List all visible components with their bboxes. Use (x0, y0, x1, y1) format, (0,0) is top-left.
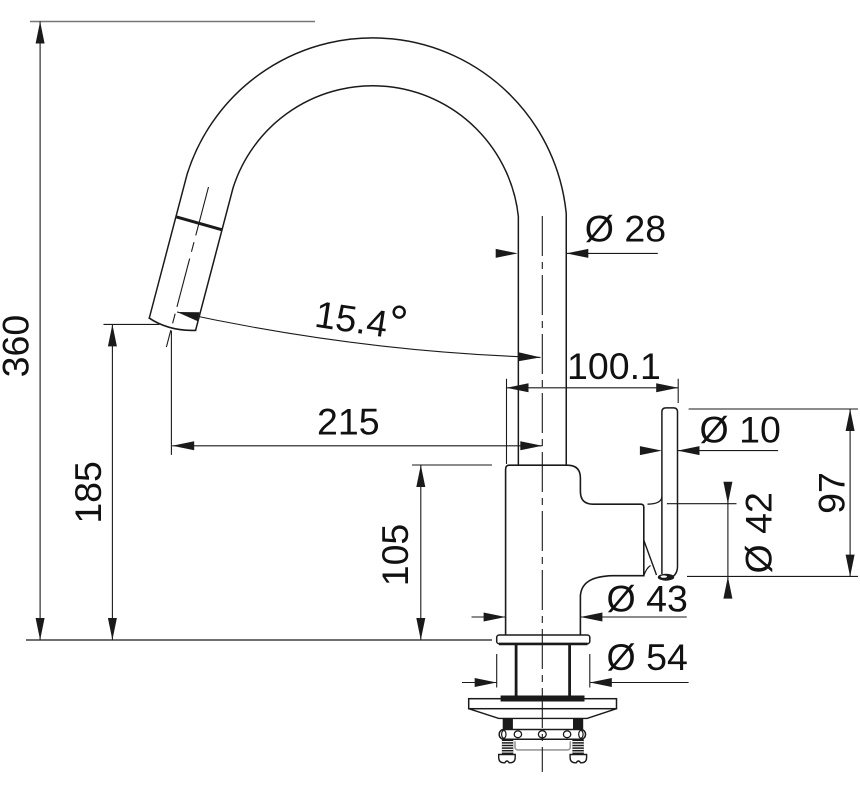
dim 215 line (172, 445, 542, 447)
arrow Ø54 left (475, 678, 497, 687)
extension 97 top (handle top) (689, 408, 858, 410)
wing nut right (570, 755, 587, 763)
dim Ø54 lines (462, 682, 497, 684)
arrow 360 bottom (36, 618, 45, 640)
handle linkage cusp (644, 566, 651, 576)
arrow Ø10 right (678, 446, 700, 455)
arrow 185 bottom (108, 618, 117, 640)
dim 360 line (39, 22, 41, 641)
arrow 185 top (108, 324, 117, 346)
extension 215 (from head tip) (170, 331, 172, 455)
arrow Ø43 left (484, 613, 506, 622)
stud upper right (black) (573, 718, 583, 729)
dim 97 line (849, 409, 851, 577)
spout tube (gooseneck) outer silhouette (173, 62, 543, 466)
svg-text:Ø 54: Ø 54 (607, 636, 688, 678)
arrow Ø28 right (566, 249, 588, 258)
arrow 100.1 right (656, 383, 678, 392)
arrow 105 top (416, 465, 425, 487)
dim 105 line (420, 465, 422, 640)
svg-text:215: 215 (317, 401, 380, 443)
tailpiece left wall (515, 645, 518, 699)
spray head tip end cap (149, 318, 197, 331)
arrow Ø54 right (590, 678, 612, 687)
svg-text:100.1: 100.1 (567, 345, 661, 387)
faucet body outline (506, 465, 644, 636)
baseline (worktop reference) (26, 639, 492, 641)
gasket trapezoid (469, 709, 617, 719)
wing nut left (499, 755, 516, 763)
svg-text:97: 97 (811, 472, 853, 514)
angle leader 15.4 arc (177, 312, 541, 357)
svg-text:Ø 43: Ø 43 (607, 577, 688, 619)
extension 105 (412, 464, 492, 466)
arrow 100.1 left (507, 383, 529, 392)
spray head axis (dash-dot) (166, 187, 208, 347)
arrow 360 top (36, 22, 45, 44)
spout tube interior (172, 62, 542, 467)
riser centerline (dash-dot) (541, 216, 543, 772)
stud upper left (black) (503, 718, 513, 729)
clamp bar end slot right (579, 730, 583, 738)
dim Ø10 line (678, 450, 779, 452)
clamp bar hole 2 (538, 731, 546, 738)
clamp bar hole 1 (514, 731, 521, 738)
extension 100.1 left (506, 379, 508, 464)
tailpiece right wall (568, 645, 571, 699)
handle lever stem (662, 408, 678, 577)
dim Ø42 line (727, 483, 729, 592)
extension line top (360 upper reference) (30, 21, 315, 23)
arrow 97 top (846, 409, 855, 431)
mounting deck plate (469, 699, 617, 709)
svg-text:185: 185 (67, 461, 109, 524)
svg-text:Ø 28: Ø 28 (585, 207, 666, 249)
arrow Ø42 top (723, 482, 732, 504)
clamp bar hole 3 (563, 731, 570, 738)
arrow 215 left (172, 441, 194, 450)
svg-text:Ø 42: Ø 42 (738, 492, 780, 573)
hidden body between studs (gray) (515, 741, 570, 750)
thread left (502, 739, 513, 755)
arrow Ø10 left (640, 446, 662, 455)
tailpiece dark band (501, 696, 585, 702)
handle lever lower diagonal (644, 540, 657, 575)
extension 100.1 right (677, 379, 679, 403)
dim 100.1 line (507, 387, 679, 389)
arrow 105 bottom (416, 618, 425, 640)
dim 185 line (111, 324, 113, 640)
svg-text:Ø 10: Ø 10 (700, 409, 781, 451)
arrow 15.4 right (518, 352, 540, 361)
clamp bar end slot left (502, 730, 506, 738)
handle lever ball tip (658, 574, 674, 581)
base flange (497, 635, 590, 644)
arrow Ø43 right (580, 613, 602, 622)
thread right (572, 739, 583, 755)
arrow 97 bottom (846, 555, 855, 577)
arrow 215 right (520, 441, 542, 450)
flange bold bottom (499, 643, 588, 646)
arrow Ø28 left (496, 249, 518, 258)
svg-text:105: 105 (374, 524, 416, 587)
arrow Ø42 bottom (723, 577, 732, 599)
handle lever flare (648, 497, 662, 505)
extension line y=576 right of dome (687, 575, 858, 577)
clamp bar (499, 730, 585, 740)
dim Ø43 lines (472, 616, 506, 618)
extension Ø42 top (667, 503, 737, 505)
dim Ø28 line (566, 252, 658, 254)
spray head junction bold line (177, 217, 223, 230)
extension Ø54 right (589, 654, 591, 688)
extension 185 (104, 323, 160, 325)
extension Ø54 left (496, 654, 498, 688)
svg-text:360: 360 (0, 315, 37, 378)
arrow 15.4 left (177, 312, 200, 321)
